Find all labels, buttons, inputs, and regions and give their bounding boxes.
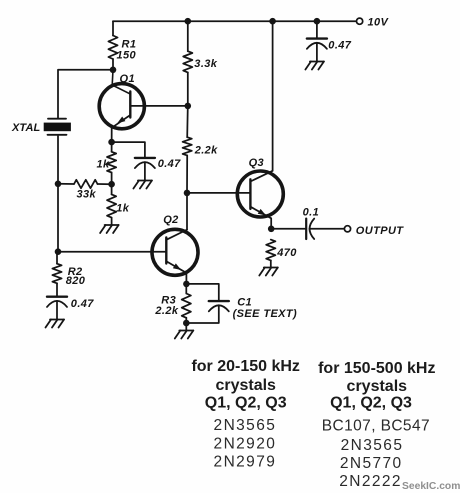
svg-text:2N2979: 2N2979 — [214, 454, 277, 471]
capacitor 0.47 at Q1 emitter — [135, 157, 155, 159]
junction node Q2 base / R2 — [55, 248, 62, 255]
wire 2.2k to Q2 collector — [186, 155, 188, 229]
wire C1 bottom to R3 bottom node — [186, 305, 219, 323]
capacitor 0.47 bypass top right — [307, 37, 327, 39]
svg-text:crystals: crystals — [215, 377, 276, 394]
svg-text:150: 150 — [117, 49, 137, 61]
wire R1 top lead — [112, 21, 114, 35]
junction node top rail / bypass cap — [314, 18, 321, 25]
junction node crystal lead / 33k — [55, 181, 62, 188]
ground below R3 — [179, 330, 193, 332]
ground below top-right bypass cap — [310, 61, 324, 63]
svg-text:BC107, BC547: BC107, BC547 — [322, 417, 430, 434]
svg-text:for 150-500 kHz: for 150-500 kHz — [318, 360, 435, 377]
wire R3 top lead — [185, 284, 187, 294]
svg-text:crystals: crystals — [347, 378, 408, 395]
junction node Q2 collector / Q3 base tap — [184, 190, 191, 197]
svg-text:2N2222: 2N2222 — [339, 473, 402, 490]
svg-text:0.47: 0.47 — [328, 39, 351, 51]
transistor Q3 — [237, 171, 283, 229]
wire Q1 base node to 2.2k — [186, 106, 189, 137]
wire top supply rail — [113, 20, 356, 22]
svg-text:Q1, Q2, Q3: Q1, Q2, Q3 — [330, 395, 412, 412]
wire R2 bypass cap to ground — [56, 301, 58, 320]
svg-text:2.2k: 2.2k — [154, 305, 178, 317]
svg-text:820: 820 — [66, 275, 86, 287]
capacitor 0.1 output coupling — [305, 219, 307, 239]
wire R3 bottom to ground — [185, 318, 187, 331]
svg-text:SeekIC.com: SeekIC.com — [402, 481, 460, 492]
svg-text:Q1: Q1 — [120, 73, 135, 85]
svg-text:2N5770: 2N5770 — [340, 455, 403, 472]
wire middle rail top to 3.3k — [187, 21, 189, 51]
junction node Q1 base / divider — [185, 103, 192, 110]
wire bypass cap top right lead — [316, 21, 318, 38]
junction node R1 bottom / Q1 collector / crystal top — [110, 67, 117, 74]
terminal 10V — [357, 18, 363, 24]
svg-text:2.2k: 2.2k — [194, 144, 218, 156]
svg-text:2N2920: 2N2920 — [214, 436, 277, 453]
junction node R3 bottom / C1 bottom — [183, 320, 190, 327]
junction node Q1 emitter / 1k / 0.47 — [108, 139, 115, 146]
ground below 470 — [264, 267, 278, 269]
terminal OUTPUT — [344, 226, 350, 232]
svg-text:(SEE TEXT): (SEE TEXT) — [233, 308, 298, 320]
svg-text:33k: 33k — [77, 189, 97, 201]
wire output cap to terminal — [310, 228, 345, 230]
transistor Q1 — [99, 70, 188, 129]
resistor 3.3k — [183, 51, 192, 72]
svg-text:0.47: 0.47 — [158, 158, 181, 170]
wire bypass cap to ground top right — [316, 43, 318, 62]
wire Q1 emitter lead — [111, 128, 113, 152]
capacitor 0.47 below R2 — [47, 296, 67, 298]
resistor 2.2k divider — [183, 137, 192, 155]
svg-text:OUTPUT: OUTPUT — [356, 225, 404, 237]
wire crystal bottom lead down to Q2 base node — [57, 136, 59, 252]
svg-text:2N3565: 2N3565 — [214, 417, 277, 434]
junction node Q2 emitter / R3 / C1 — [183, 281, 190, 288]
svg-text:10V: 10V — [368, 17, 390, 29]
resistor R1 150 — [108, 36, 117, 60]
svg-text:C1: C1 — [237, 297, 252, 309]
ground below 0.47 at Q1 emitter — [138, 180, 152, 182]
crystal XTAL — [48, 118, 66, 120]
ground below lower 1k — [105, 224, 119, 226]
svg-text:470: 470 — [276, 247, 297, 259]
svg-text:Q3: Q3 — [249, 157, 264, 169]
junction node top rail / Q3 collector — [269, 18, 276, 25]
svg-text:1k: 1k — [97, 158, 111, 170]
junction node 1k / 1k / 33k — [108, 181, 115, 188]
resistor R2 820 — [52, 264, 61, 284]
wire R2 bottom lead to cap — [56, 283, 58, 296]
resistor 33k — [58, 183, 74, 185]
svg-text:1k: 1k — [116, 202, 130, 214]
resistor 470 — [266, 240, 275, 261]
wire 3.3k to Q1 base node — [187, 72, 189, 106]
capacitor C1 — [209, 300, 229, 302]
wire 470 to ground — [270, 260, 272, 267]
svg-text:3.3k: 3.3k — [194, 58, 217, 70]
svg-text:for 20-150 kHz: for 20-150 kHz — [191, 358, 300, 375]
wire Q2 base run — [57, 251, 166, 253]
wire Q3 collector lead to top rail — [272, 21, 274, 171]
svg-text:Q2: Q2 — [163, 214, 178, 226]
ground below R2 bypass cap — [50, 319, 64, 321]
svg-text:Q1, Q2, Q3: Q1, Q2, Q3 — [205, 395, 287, 412]
wire Q3 base run — [187, 192, 250, 194]
wire lower 1k to ground — [111, 218, 113, 225]
wire 1k to 1k — [111, 173, 113, 195]
wire R2 top lead — [56, 252, 58, 264]
wire Q3 emitter node to output cap — [271, 228, 306, 230]
svg-text:2N3565: 2N3565 — [341, 437, 404, 454]
transistor Q2 — [152, 229, 198, 284]
svg-text:0.1: 0.1 — [303, 207, 320, 219]
wire R1 bottom lead to node — [112, 59, 114, 70]
wire 0.47 cap to ground — [144, 162, 146, 180]
resistor 1k upper — [107, 152, 116, 173]
junction node top rail / 3.3k — [185, 18, 192, 25]
svg-text:XTAL: XTAL — [11, 122, 40, 134]
resistor 1k lower — [107, 194, 116, 217]
svg-text:0.47: 0.47 — [71, 298, 94, 310]
wire Q2 emitter node to C1 top — [186, 284, 218, 301]
junction node Q3 emitter / 470 / output cap — [268, 226, 275, 233]
wire Q1 emitter node to 0.47 cap — [112, 142, 145, 158]
resistor R3 2.2k — [182, 294, 191, 318]
wire node to crystal top — [58, 70, 113, 118]
